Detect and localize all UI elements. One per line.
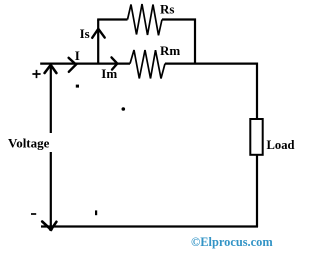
stray tick bottom left xyxy=(95,210,97,215)
svg-text:Load: Load xyxy=(267,138,295,152)
wire: top branch horizontal right of Rs xyxy=(162,18,196,20)
load resistor box xyxy=(250,119,262,155)
stray dot below Im xyxy=(122,107,126,111)
voltage source dimension line upper segment xyxy=(50,65,52,134)
wire: main horizontal conductor (top) xyxy=(40,62,130,64)
svg-text:Im: Im xyxy=(101,66,117,81)
wire: Is branch vertical riser xyxy=(97,20,99,65)
minus sign xyxy=(31,213,36,215)
resistor Rm zigzag xyxy=(130,50,165,79)
arrowhead up at + terminal xyxy=(45,65,57,73)
plus sign xyxy=(32,70,40,78)
wire: top branch horizontal left of Rs xyxy=(97,18,127,20)
wire: right side vertical conductor xyxy=(256,63,258,228)
svg-text:Rm: Rm xyxy=(160,43,180,58)
stray dot near I arrow xyxy=(76,85,79,88)
voltage source dimension line lower segment xyxy=(50,152,52,228)
resistor Rs zigzag xyxy=(128,4,163,35)
svg-text:Is: Is xyxy=(80,26,90,41)
arrowhead down at - terminal xyxy=(42,222,56,230)
wire: bottom horizontal conductor xyxy=(41,225,258,227)
current arrow Im (chevron on main wire) xyxy=(112,57,118,69)
svg-text:©Elprocus.com: ©Elprocus.com xyxy=(191,235,273,249)
wire: Rs branch right vertical drop xyxy=(194,19,196,65)
svg-text:Rs: Rs xyxy=(160,2,174,17)
svg-text:Voltage: Voltage xyxy=(8,135,50,150)
current arrow I (chevron on main wire) xyxy=(69,58,76,72)
current arrow Is (up arrowhead on riser) xyxy=(92,29,105,38)
wire: main horizontal conductor right of Rm xyxy=(165,62,258,64)
svg-text:I: I xyxy=(75,48,80,63)
